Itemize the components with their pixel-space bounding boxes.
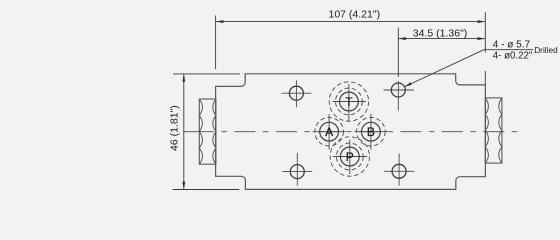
dim 34.5 right arrow [477,37,485,40]
right boss lower lens [485,130,502,163]
port B crosshair [355,114,388,150]
svg-text:P: P [346,150,354,164]
svg-text:B: B [367,125,375,139]
mounting hole bottom-right [392,164,406,178]
port P circle [340,147,359,166]
svg-text:107 (4.21"): 107 (4.21") [329,8,381,20]
hole callout leader arrowhead [404,82,411,87]
centerline left solid segment [183,131,214,133]
right boss upper lens [485,98,502,130]
dim 34.5 left arrow [399,37,407,40]
port A circle [320,122,339,141]
svg-text:4- ø0.22": 4- ø0.22" [493,50,533,61]
hole callout leader [404,50,484,87]
svg-text:34.5 (1.36"): 34.5 (1.36") [413,27,468,39]
svg-text:4 - ø 5.7: 4 - ø 5.7 [493,40,531,51]
svg-text:T: T [345,95,353,109]
hole callout fraction rule [484,49,533,51]
mounting hole bottom-right crosshair [384,154,415,186]
dim 107 left arrow [216,20,224,23]
dim 107 line [216,21,485,23]
dim 107/34.5 right extension line upper [484,12,486,53]
port T circle [340,92,359,111]
port P crosshair [333,140,367,175]
dim 46 top arrow [182,74,185,82]
mounting hole top-left [289,86,303,100]
dim 107 left extension line [215,16,217,70]
dim 34.5 line [399,38,485,40]
port T inner dashed ring [336,88,363,115]
dim 46 line [183,74,185,189]
mounting hole bottom-left [290,165,304,179]
left boss upper lens [199,99,216,132]
dim right extension line lower [484,71,486,85]
dim 46 bottom extension line [173,189,240,191]
port A crosshair [313,114,346,150]
dim 46 top extension line [173,73,240,75]
mounting hole top-right crosshair [384,81,415,111]
port P outer dashed ring [330,137,369,176]
port B circle [362,122,381,141]
left boss rect [199,99,216,164]
svg-text:Drilled: Drilled [534,45,558,55]
mounting hole top-left crosshair [281,80,311,107]
port P inner dashed ring [336,143,363,170]
port B dashed ring [357,117,386,146]
left boss lower lens [199,132,216,165]
svg-text:A: A [325,125,333,139]
dim 34.5 left extension line [397,28,399,78]
plate outline [216,74,486,190]
svg-text:46 (1.81"): 46 (1.81") [169,105,181,151]
centerline chain segment [221,131,517,133]
right boss rect [485,98,502,163]
mounting hole top-right [391,83,405,97]
port T outer dashed ring [329,82,368,121]
dim 107 right arrow [478,20,486,23]
dim 46 bottom arrow [182,182,185,190]
port A dashed ring [315,117,344,146]
port T crosshair [333,84,367,122]
mounting hole bottom-left crosshair [282,153,312,186]
